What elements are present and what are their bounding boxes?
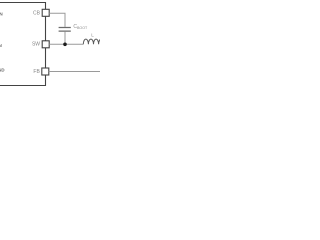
inductor L xyxy=(83,39,103,44)
wire FB xyxy=(49,71,100,73)
node SW junction xyxy=(63,43,67,47)
svg-text:CB: CB xyxy=(33,11,41,17)
capacitor CBOOT (plates) xyxy=(59,28,71,32)
svg-text:SW: SW xyxy=(32,42,40,48)
svg-text:CBOOT: CBOOT xyxy=(73,24,88,30)
pin CB (box) xyxy=(42,9,49,16)
wire CB to Cboot top xyxy=(49,13,65,27)
pin FB (box) xyxy=(42,68,49,75)
wire Cboot bottom to SW node xyxy=(64,32,66,45)
svg-text:L: L xyxy=(91,33,94,38)
svg-text:GND: GND xyxy=(0,68,5,73)
pin SW (box) xyxy=(42,41,49,48)
svg-text:EN: EN xyxy=(0,43,2,48)
IC U1 (regulator block, cropped at left) xyxy=(0,3,46,86)
svg-text:VIN: VIN xyxy=(0,11,3,16)
wire SW to inductor xyxy=(49,43,83,45)
svg-text:FB: FB xyxy=(33,69,40,75)
